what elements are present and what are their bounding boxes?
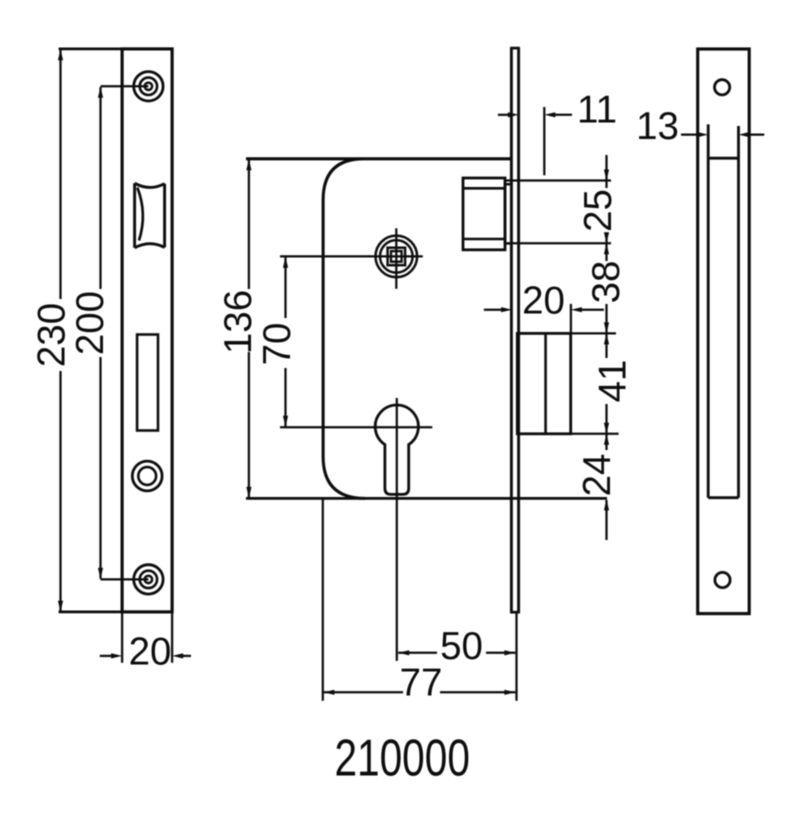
deadbolt (middle view) bbox=[517, 333, 570, 433]
body bottom edge + extensions bbox=[246, 497, 607, 500]
svg-text:70: 70 bbox=[256, 323, 299, 366]
200 arrows bbox=[98, 87, 103, 98]
dim 77 line bbox=[323, 691, 515, 693]
svg-text:136: 136 bbox=[217, 290, 260, 354]
50 arrows (inside pointing out) bbox=[398, 650, 409, 655]
dim 70 line bbox=[284, 257, 286, 427]
136 arrows bbox=[246, 159, 251, 170]
svg-text:77: 77 bbox=[400, 662, 443, 705]
RIGHT VIEW: side plate bbox=[698, 49, 750, 614]
svg-text:200: 200 bbox=[69, 291, 112, 355]
dim 136 line bbox=[248, 159, 250, 498]
faceplate edge-on bbox=[510, 48, 513, 612]
230 arrows bbox=[58, 49, 63, 60]
20 middle arrows (outside) bbox=[501, 307, 512, 312]
dimension texts bbox=[31, 89, 679, 705]
euro cylinder hole bbox=[375, 405, 418, 494]
svg-text:25: 25 bbox=[577, 189, 620, 232]
dim 20 (deadbolt throw) bbox=[484, 309, 503, 311]
dimension 200 connectors bbox=[101, 85, 149, 87]
svg-text:50: 50 bbox=[440, 625, 483, 668]
20 bottom arrows (outside) bbox=[111, 653, 122, 658]
latch cutout bbox=[135, 183, 165, 248]
dimension 230 line bbox=[59, 50, 61, 612]
latch bevel arc bbox=[137, 188, 143, 241]
svg-text:24: 24 bbox=[576, 454, 619, 497]
77 arrows bbox=[323, 690, 334, 695]
70 extension to cylinder bbox=[280, 426, 432, 428]
cylinder crosshair / 50-extension bbox=[396, 398, 398, 661]
spindle follower hole bbox=[376, 236, 418, 278]
11 arrows (outside) bbox=[508, 112, 519, 117]
dim 13 bbox=[681, 133, 699, 135]
LEFT VIEW: strike plate outline bbox=[122, 49, 172, 612]
dim 11 bbox=[498, 114, 510, 116]
70 extension to spindle bbox=[280, 255, 370, 257]
svg-text:230: 230 bbox=[31, 303, 74, 367]
middle hole bbox=[132, 461, 162, 491]
slot with top extensions bbox=[708, 124, 738, 497]
50/77 right extension bbox=[515, 612, 517, 701]
dimension 200 line bbox=[99, 87, 101, 579]
dim 20 arrows bbox=[100, 655, 112, 657]
bottom screw hole bbox=[134, 565, 163, 594]
svg-text:20: 20 bbox=[522, 280, 565, 323]
dim 50 line bbox=[398, 652, 515, 654]
deadbolt cutout bbox=[137, 335, 158, 431]
13 arrows (outside) bbox=[697, 132, 708, 137]
column arrows converging at ticks bbox=[604, 170, 609, 181]
svg-text:13: 13 bbox=[636, 105, 679, 148]
spindle crosshair bbox=[395, 228, 397, 288]
MIDDLE VIEW: lock body outline bbox=[246, 159, 511, 499]
70 arrows bbox=[283, 257, 288, 268]
vertical dimension column (25/38/41/24) bbox=[605, 155, 607, 540]
plate top edge extension bbox=[59, 48, 123, 51]
top screw hole bbox=[134, 72, 163, 101]
plate bottom edge extension bbox=[59, 611, 123, 614]
svg-text:41: 41 bbox=[592, 360, 635, 403]
right extension lines (latch/deadbolt levels) bbox=[504, 179, 611, 181]
svg-text:38: 38 bbox=[585, 261, 628, 304]
dim 20 extension lines below plate bbox=[121, 612, 123, 663]
arrowheads bbox=[58, 49, 750, 695]
77 left extension bbox=[322, 498, 324, 700]
svg-text:11: 11 bbox=[577, 89, 617, 132]
latch bolt (middle view) bbox=[463, 178, 505, 250]
svg-text:210000: 210000 bbox=[334, 730, 470, 788]
svg-text:20: 20 bbox=[129, 630, 172, 673]
